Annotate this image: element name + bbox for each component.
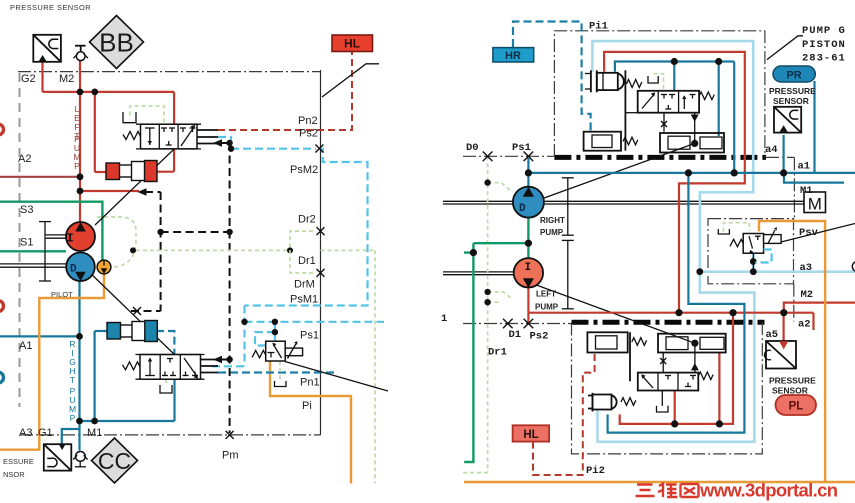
- svg-text:HR: HR: [505, 50, 521, 62]
- svg-text:PsM2: PsM2: [290, 164, 318, 176]
- svg-text:www.3dportal.cn: www.3dportal.cn: [699, 480, 838, 501]
- svg-text:I: I: [67, 232, 74, 246]
- svg-text:Dr1: Dr1: [298, 255, 316, 267]
- svg-text:Ps2: Ps2: [530, 331, 549, 343]
- svg-text:PUMP: PUMP: [540, 228, 564, 237]
- svg-text:SENSOR: SENSOR: [773, 96, 809, 106]
- svg-text:M1: M1: [800, 185, 813, 197]
- svg-text:Ps1: Ps1: [300, 330, 319, 342]
- svg-text:ESSURE: ESSURE: [3, 457, 34, 466]
- svg-text:A3: A3: [19, 427, 32, 439]
- svg-text:Dr2: Dr2: [298, 214, 316, 226]
- svg-text:S3: S3: [20, 204, 33, 216]
- svg-text:Pi: Pi: [302, 400, 312, 412]
- svg-text:P: P: [74, 161, 80, 171]
- svg-text:A2: A2: [18, 153, 31, 165]
- svg-text:PISTON: PISTON: [802, 39, 846, 51]
- svg-text:M2: M2: [801, 289, 814, 301]
- svg-text:Pm: Pm: [222, 450, 239, 462]
- svg-text:PRESSURE: PRESSURE: [769, 376, 816, 386]
- svg-text:a5: a5: [766, 329, 779, 341]
- svg-text:Ps1: Ps1: [512, 142, 531, 154]
- svg-text:Pn2: Pn2: [298, 115, 318, 127]
- svg-text:a3: a3: [800, 262, 813, 274]
- svg-text:M2: M2: [59, 73, 74, 85]
- svg-text:PR: PR: [786, 70, 801, 82]
- svg-text:283-61: 283-61: [802, 53, 846, 65]
- svg-text:DrM: DrM: [294, 279, 315, 291]
- svg-text:1: 1: [441, 313, 447, 325]
- svg-text:D0: D0: [466, 142, 479, 154]
- svg-text:Ps2: Ps2: [299, 128, 318, 140]
- svg-text:M: M: [808, 195, 822, 214]
- svg-text:NSOR: NSOR: [3, 470, 25, 479]
- svg-text:HL: HL: [344, 37, 360, 51]
- svg-text:SENSOR: SENSOR: [772, 386, 808, 396]
- svg-text:I: I: [525, 262, 532, 274]
- svg-text:CC: CC: [98, 448, 131, 474]
- svg-text:A1: A1: [19, 340, 32, 352]
- svg-text:S1: S1: [20, 237, 33, 249]
- svg-text:BB: BB: [99, 28, 134, 58]
- svg-text:G2: G2: [21, 73, 36, 85]
- svg-text:PRESSURE SENSOR: PRESSURE SENSOR: [10, 3, 91, 12]
- svg-text:PsM1: PsM1: [290, 294, 318, 306]
- svg-text:Pi1: Pi1: [589, 21, 608, 33]
- svg-text:Dr1: Dr1: [488, 347, 507, 359]
- svg-text:PUMP: PUMP: [535, 303, 559, 312]
- svg-text:D: D: [519, 203, 526, 215]
- svg-text:T: T: [70, 375, 75, 385]
- svg-text:RIGHT: RIGHT: [540, 216, 565, 225]
- svg-text:G1: G1: [38, 427, 53, 439]
- svg-text:Pn1: Pn1: [300, 377, 320, 389]
- svg-text:PL: PL: [789, 401, 804, 413]
- svg-text:P: P: [70, 413, 76, 423]
- svg-text:HL: HL: [523, 429, 538, 441]
- svg-text:D1: D1: [509, 329, 522, 341]
- svg-text:LEFT: LEFT: [536, 290, 556, 299]
- svg-text:D: D: [70, 264, 77, 276]
- svg-text:a2: a2: [798, 319, 811, 331]
- svg-text:a4: a4: [765, 144, 778, 156]
- svg-text:PRESSURE: PRESSURE: [769, 86, 816, 96]
- svg-text:Pi2: Pi2: [586, 465, 605, 477]
- svg-text:Psv: Psv: [799, 227, 819, 239]
- svg-text:PUMP G: PUMP G: [802, 25, 846, 37]
- svg-text:M1: M1: [87, 427, 102, 439]
- svg-text:a1: a1: [798, 161, 811, 173]
- svg-text:PILOT: PILOT: [51, 290, 73, 299]
